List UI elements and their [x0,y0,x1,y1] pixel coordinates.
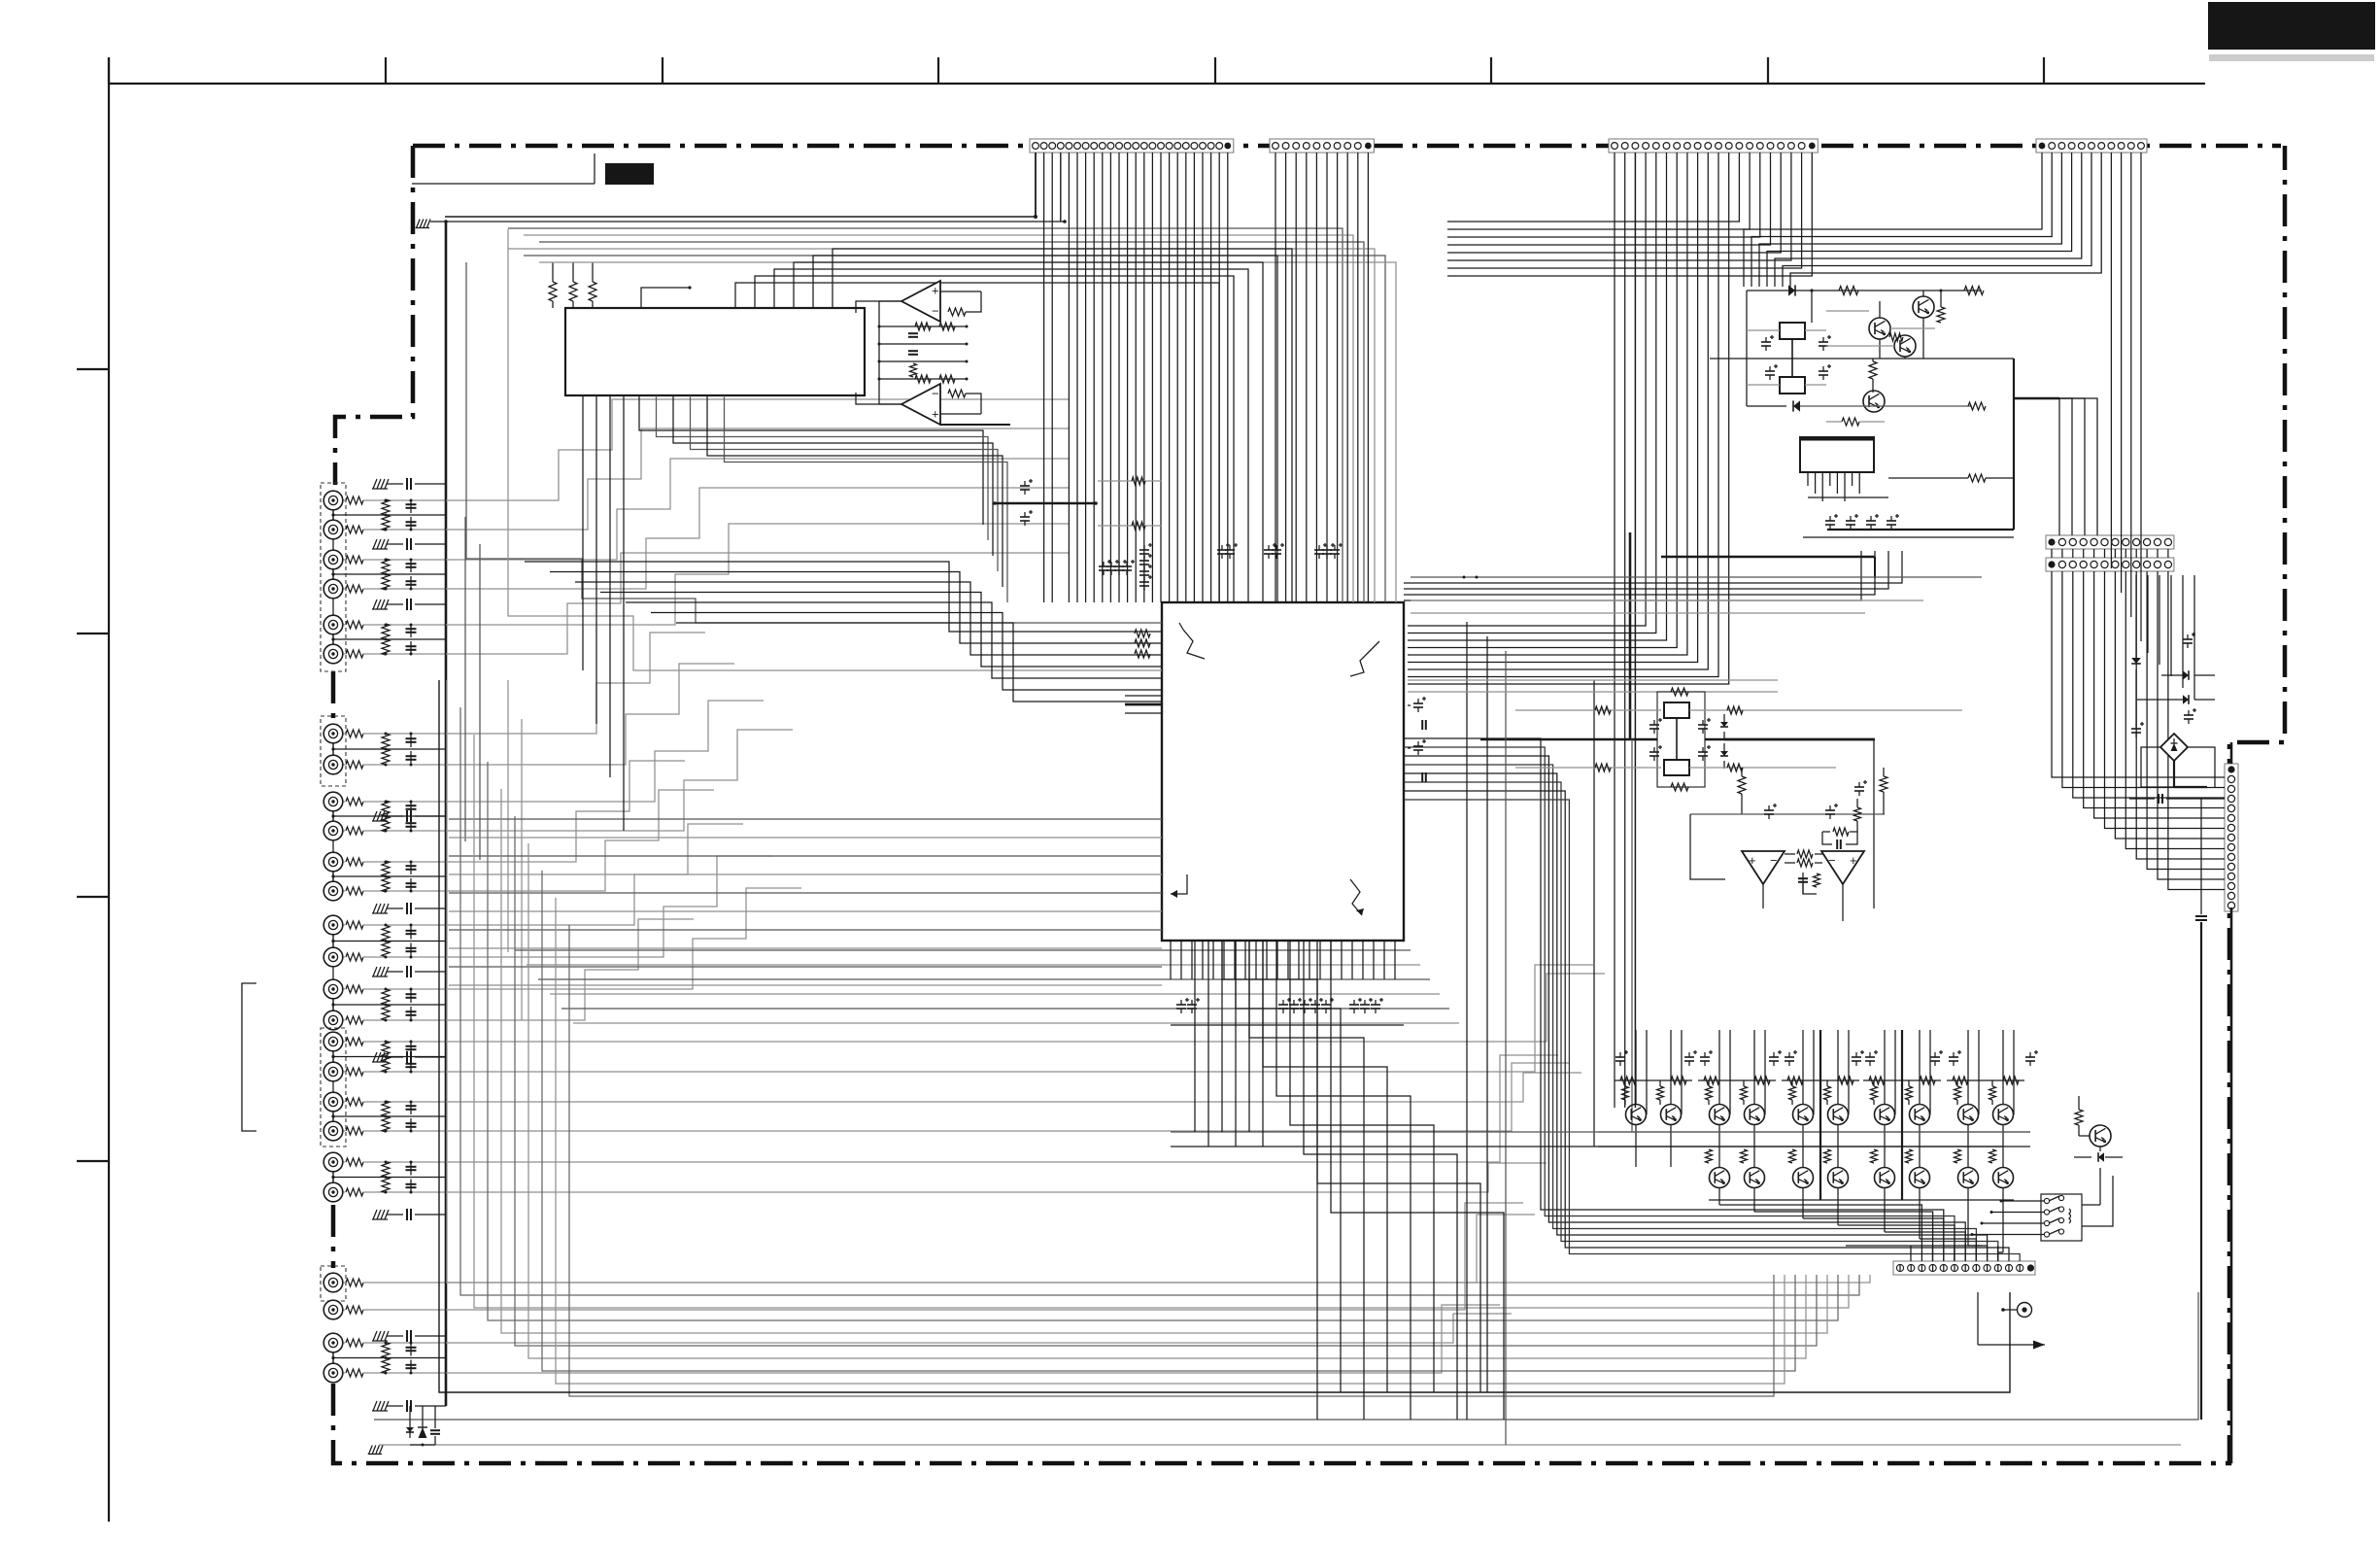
resistor far right power [1968,402,1986,410]
resistor R power 2 [1964,287,1984,295]
jack ground chain [332,1042,334,1131]
caps below IC [1176,1004,1186,1006]
bridge wires [2141,747,2174,787]
wire pair link [332,569,334,579]
resistor divider [382,926,390,942]
jack ground chain [332,802,334,891]
transistor QB2 [1745,1168,1765,1188]
transistor QB7 [1958,1168,1979,1188]
array row1 emitters [1635,1125,1637,1167]
ground filter [373,479,377,489]
transistor QA8 [1910,1105,1930,1125]
transistor QA6 [1828,1105,1849,1125]
ground filter [373,1401,377,1411]
CN7 top feeds [1846,1245,1982,1247]
bottom signal band [447,680,1870,1283]
resistor divider [382,559,390,574]
RCA jack [323,915,343,935]
resistor vertical power [1869,361,1877,379]
cap below bridge [2158,794,2159,804]
bias resistors above display block [549,282,557,301]
diode DR1 [2131,658,2141,664]
main board dash-dot outline [413,144,2281,149]
ground filter [373,1210,377,1219]
wire pair link [332,1112,334,1121]
wire pair link [332,743,334,755]
analog signal bus into IC [449,818,1162,820]
switch wires [2001,1200,2044,1202]
regulator caps [1825,520,1835,522]
audio ground bus [445,222,448,1406]
transistor Q4 [1863,391,1885,412]
thick array verticals [1819,1030,1821,1200]
protection diodes bottom left [409,1406,411,1438]
right vertical wires [2135,575,2137,641]
wire pair link [332,935,334,947]
RCA jack [323,644,343,664]
wire pair link [332,999,334,1010]
cap left of bridge [2131,728,2141,730]
RCA jack [323,1182,343,1202]
relay resistors [1671,688,1688,696]
switch coil [2069,1209,2071,1223]
wire pair link [332,1172,334,1182]
transistor QA3 [1710,1105,1730,1125]
connector CN1 [1030,139,1234,153]
transistor QB3 [1793,1168,1814,1188]
jack signal wires [446,399,1069,500]
diode DR3 [2183,695,2189,704]
display block [565,308,865,395]
RCA jack [323,852,343,872]
RCA jack [323,1032,343,1051]
transistor QA4 [1745,1105,1765,1125]
electrolytic caps power [1761,341,1771,343]
U3 network [1797,850,1813,858]
bottom right cap [2195,915,2207,917]
connector CN3 [1609,139,1818,153]
array vertical resistors [1622,1086,1629,1100]
jack group dashed box [321,483,346,671]
op-amp output wires [856,301,901,313]
array resistor row [1615,1079,1692,1081]
resistor divider [382,499,390,515]
connector CN7 bottom [1893,1261,2035,1275]
array base rails [1598,1131,2030,1133]
page frame left ruler [108,57,110,1522]
capacitor pair [410,989,412,1003]
svg-text:+: + [932,284,939,298]
resistor right of U3 [1880,776,1887,792]
wire pair link [332,1353,334,1363]
left board outline segments [331,671,336,718]
array vertical feeds [1635,1030,1637,1104]
below-IC staircase bundle [1222,941,1317,1420]
capacitor pair [410,862,412,874]
RCA jack [323,1121,343,1141]
RCA jack [323,947,343,967]
resistor divider [382,1101,390,1116]
sub-board label leader [412,183,595,185]
wire pair link [332,872,334,881]
resistor divider [382,1042,390,1057]
bridge rectifier [2160,734,2188,761]
RCA jack [323,755,343,774]
cap DR4 [2184,714,2193,716]
capacitor pair [410,560,412,572]
transistor QA10 [1993,1105,2014,1125]
page frame top ruler [109,83,2205,85]
resistor divider [382,989,390,1005]
wire pair link [332,811,334,821]
wire pair link [332,634,334,644]
power regulator IC [1800,437,1874,472]
jack ground chain [332,1343,334,1373]
capacitor pair [410,625,412,637]
signal lines passing under IC [515,949,1411,951]
ground filter [373,1331,377,1341]
ground filter [373,1052,377,1062]
RCA jack [323,821,343,840]
RCA jack [323,1333,343,1353]
transistor QB1 [1710,1168,1730,1188]
capacitor pair [410,1042,412,1055]
power rail top [1747,290,1982,291]
RCA jack [323,1062,343,1081]
transistor QB4 [1828,1168,1849,1188]
svg-text:+: + [932,407,939,422]
wire bundle IC bottom [1170,941,1172,979]
op-amp U2A [901,281,940,322]
IC left input caps stack [1139,549,1149,551]
RCA jack [323,491,343,510]
thick bus IC right [1629,532,1632,739]
resistor divider [382,801,390,816]
relay row wires [1515,709,1661,711]
transistor QA9 [1958,1105,1979,1125]
RCA jack [323,1010,343,1030]
switch block S1 [2041,1194,2082,1241]
connector CN2 [1270,139,1374,153]
diode DR2 [2183,670,2189,680]
thick IC left segment [1125,703,1162,706]
resistor R power 1 [1839,287,1858,295]
RCA jack [323,1300,343,1319]
title block black box [2208,2,2375,50]
svg-text:+: + [1749,853,1756,868]
transistor Q2 [1869,318,1890,339]
transistor QB6 [1910,1168,1930,1188]
transistor QB8 [1993,1168,2014,1188]
IC bottom long rails [1171,1131,2030,1133]
RCA jack [323,724,343,743]
cap right top [2183,638,2193,640]
op-amp U3B [1821,851,1864,884]
wire bundle CN1 to IC top [1035,153,1037,217]
left staircase long wires [466,262,1162,623]
board name black label [605,163,654,185]
RCA output jack [2018,1303,2032,1318]
array row2 emitters [1718,1188,1720,1200]
relay K1 coil a [1664,702,1689,718]
thick mid bus [1724,738,1874,740]
resistor divider [382,861,390,876]
decoupling caps above IC [1099,565,1108,567]
resistors on IC left inputs [1135,630,1150,637]
jack ground chain [332,500,334,654]
svg-text:−: − [1770,853,1778,868]
op-amp feedback network [940,291,981,292]
resistor divider [382,1162,390,1178]
resistor right power [1937,307,1945,323]
array to CN7 staircase [1718,1200,1720,1205]
relay K1 frame [1657,692,1705,787]
RCA jack [323,550,343,569]
display block top pin wires [735,283,1219,602]
diode D2 [1793,400,1800,411]
ground filter [373,967,377,976]
jack ground chain [332,734,334,765]
wire bundle left nest upper [525,562,1162,632]
jack ground chain [332,1162,334,1192]
power mid rail [1710,358,2014,360]
RCA jack [323,1273,343,1292]
transistor QA2 [1661,1105,1682,1125]
power transistor wires [1922,318,1924,359]
resistor divider [382,624,390,639]
IC left gray inputs [1098,480,1162,482]
RCA jack [323,520,343,539]
capacitor pair [410,1162,412,1176]
thick wire below CN6 [2230,907,2233,1463]
relay RY1 [1780,323,1805,339]
ground filter [373,811,377,821]
RCA jack [323,1152,343,1172]
relay K1 coil b [1664,760,1689,775]
wire bundle display block down [639,395,983,525]
upper horizontal bundle [508,228,1343,602]
wire bundle IC right lower nest [1404,738,1944,1261]
ground at bottom left [369,1446,373,1455]
transistor Q3 [1894,335,1916,357]
RCA jack [323,615,343,634]
wire bundle CN4 down [1744,153,2042,287]
transistor QB5 [1875,1168,1895,1188]
connector CN5 row B [2046,558,2174,571]
RCA jack [323,1092,343,1112]
op-amp U2B [901,384,940,425]
comparator cluster [1738,776,1746,794]
jack ground chain [332,925,334,1020]
svg-text:−: − [1828,853,1836,868]
jack group dashed box [321,1028,346,1147]
resistor divider [382,734,390,749]
svg-text:−: − [932,304,939,319]
ground filter [373,904,377,913]
arrow output [1978,1344,2045,1346]
ground filter [373,599,377,609]
transistor QA5 [1793,1105,1814,1125]
regulator pins [1807,472,1809,486]
ground to bus top [417,220,421,228]
capacitor pair [410,500,412,513]
jack group dashed box [321,1266,346,1301]
svg-text:+: + [1850,853,1857,868]
transistor QA7 [1875,1105,1895,1125]
transistor Q4 bias resistor [1842,418,1859,426]
RCA jack [323,979,343,999]
capacitor pair [410,1343,412,1356]
single transistor QD1 [2090,1125,2111,1147]
power wires [1746,291,1748,406]
resistor divider [382,1343,390,1358]
wire bundle display block left legs [582,395,584,670]
capacitor pair [410,802,412,814]
wire bundle CN3 down [1614,153,1615,1108]
RCA jack [323,1363,343,1383]
RCA jack [323,579,343,599]
array top caps [1615,1056,1625,1058]
power to strip feeds [2014,397,2059,399]
power loop thick wires [2013,359,2015,530]
diode D1 [1788,285,1795,295]
RCA jack [323,881,343,901]
op-amp U3A [1742,851,1785,884]
connector CN4 [2036,139,2147,153]
svg-text:−: − [932,387,939,401]
transistor QA1 [1626,1105,1647,1125]
ground filter [373,539,377,549]
left spine vertical bundle [464,517,466,841]
thick node left of IC [995,502,1096,505]
relay caps [1649,724,1659,726]
capacitor pair [410,1102,412,1114]
main IC U1 [1162,602,1404,941]
caps right of IC [1413,702,1423,704]
ground trace to CN1 [445,216,1036,218]
wire pair link [332,510,334,520]
capacitor pair [410,734,412,747]
diode QD diode [2098,1152,2104,1162]
wire pair link [332,1051,334,1062]
transistor Q1 [1913,296,1934,318]
wire bundle CN2 to IC [1275,153,1276,602]
strip A B horizontal links [1411,576,1982,578]
connector CN6 vertical [2225,764,2238,911]
cable bracket marker [242,983,256,1131]
zener diodes relay [1720,722,1728,727]
bottom return lines [439,680,2010,1392]
wires strips A B to right [2051,549,2053,558]
power bottom rail [1803,536,2014,538]
capacitor pair [410,925,412,940]
wire bundle IC right to top strips [1404,551,1902,583]
RCA jack [323,792,343,811]
jack group dashed box [321,716,346,786]
connector CN5 row A [2046,535,2174,549]
scattered vertical wires right of IC [1466,622,1468,1420]
relay RY2 [1780,377,1805,394]
